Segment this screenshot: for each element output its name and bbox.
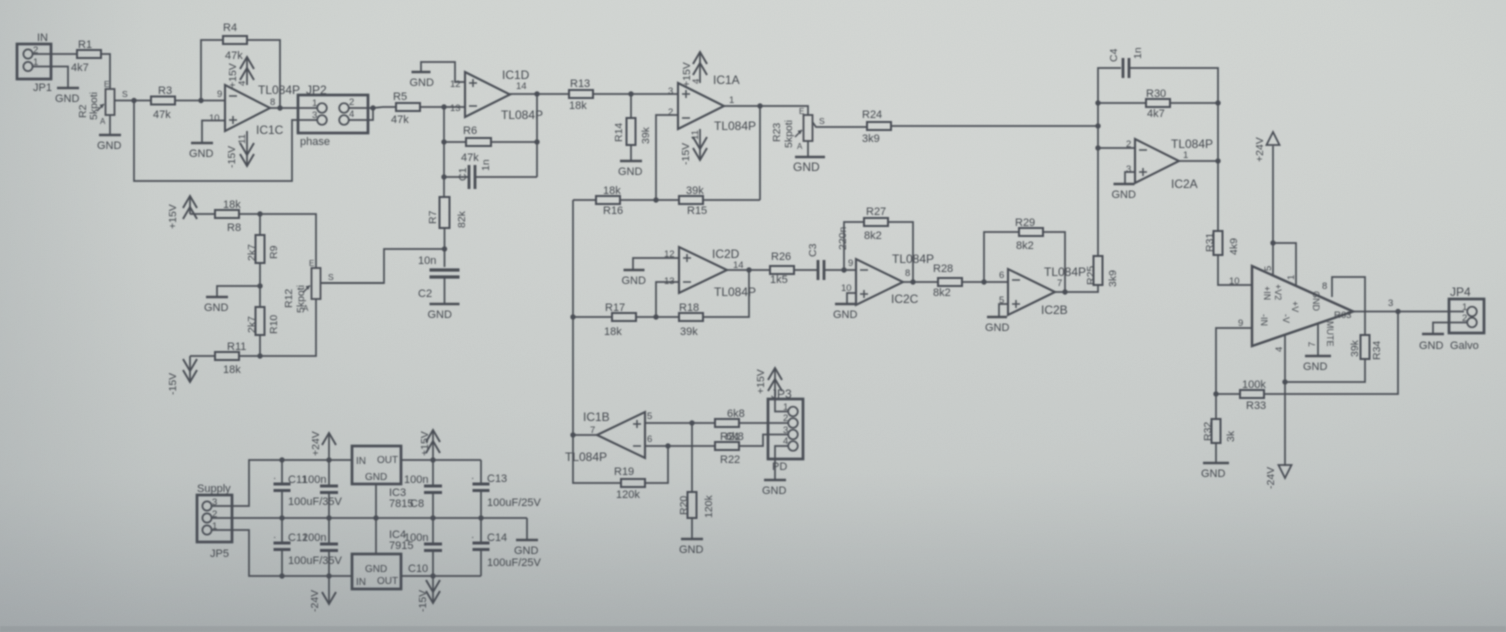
svg-text:82k: 82k [456,210,468,228]
wire R20 riser [691,423,693,492]
svg-text:+24V: +24V [310,431,322,456]
connector JP1 [17,44,51,79]
riser R6 C1 left [443,107,445,197]
svg-text:R5: R5 [393,91,407,103]
junction C7 bottom rail [326,515,331,520]
wire IC2B output to R25 [1055,285,1098,292]
svg-text:-15V: -15V [680,143,692,165]
wire JP5 pin 3 to +24V rail [212,460,352,506]
wire -15V to R11 [190,355,215,357]
svg-text:4k7: 4k7 [1147,108,1165,120]
junction IC2B output [1062,289,1067,294]
JP1 pin 2 pad [23,49,32,58]
-15V supply arrow at IC1A [693,129,707,160]
resistor R14 [627,118,636,145]
ground at R9 R10 node [204,297,229,314]
svg-text:A: A [303,304,309,313]
svg-text:-IN: -IN [1259,314,1269,326]
wire IC2C noninverting input to ground [847,293,856,303]
svg-text:1n: 1n [480,159,492,171]
resistor R18 [679,313,703,321]
rail IC4 OUT to right [401,575,481,577]
wire IC2A noninverting input to ground [1125,172,1135,183]
svg-text:R33: R33 [1246,400,1266,412]
JP1 pin 1 pad [23,62,32,71]
svg-text:1: 1 [1183,150,1188,161]
+15V supply arrow at JP3 [768,368,782,399]
svg-text:R7: R7 [427,210,439,224]
junction R6 right [534,139,539,144]
junction C13 bottom rail [478,515,483,520]
power amp output wire [1353,311,1464,313]
JP3 pin 3 pad [788,430,798,440]
svg-text:3: 3 [1126,164,1131,175]
JP3 pin 2 pad [788,418,798,428]
svg-text:9: 9 [217,89,222,100]
svg-text:9: 9 [1238,318,1243,329]
ground at IC2B input [985,317,1010,334]
svg-text:+15V: +15V [419,431,431,456]
svg-text:13: 13 [450,103,461,114]
svg-text:6k8: 6k8 [727,408,745,420]
svg-text:Galvo: Galvo [1450,340,1479,352]
capacitor C4 [1123,58,1129,78]
wire IC1B inverting to R22 [645,445,715,447]
svg-text:6: 6 [999,270,1004,281]
wire R6 right [491,141,537,143]
+24V supply arrow at rail [322,433,336,460]
op-amp IC1C [225,85,270,131]
svg-text:47k: 47k [225,50,243,62]
wire JP2 pin4 to node [348,108,373,120]
svg-text:R9: R9 [268,245,280,259]
resistor R3 [151,97,175,105]
wire JP3 pin 4 to ground [775,446,789,479]
svg-text:GND: GND [1112,189,1137,201]
wire IC1D out to IC1A [593,93,678,95]
svg-text:1: 1 [1286,275,1297,280]
svg-text:2: 2 [1126,139,1131,150]
junction +24V pins [1270,240,1275,245]
wire bus to IC2A inverting input [1098,147,1135,149]
svg-text:OUT: OUT [377,576,398,587]
wire C9 top [328,518,330,544]
resistor R34 [1361,335,1370,359]
junction R14 tap [628,91,633,96]
wire R30 right [1170,102,1218,104]
wire C12 top [281,518,283,543]
svg-text:·: · [273,473,276,484]
svg-text:3: 3 [783,425,788,436]
svg-text:3k: 3k [1225,430,1237,442]
junction at JP2 output [370,105,375,110]
connector JP5 [197,495,232,542]
capacitor C8 100n [424,486,442,493]
svg-text:-15V: -15V [167,373,179,395]
svg-text:IN: IN [356,577,366,588]
svg-text:47k: 47k [461,152,479,164]
+15V supply arrow at rail [426,430,440,460]
svg-text:IC1A: IC1A [713,73,740,87]
svg-text:39k: 39k [686,185,704,197]
svg-text:MUTE: MUTE [1325,321,1335,347]
svg-text:100uF/25V: 100uF/25V [487,497,541,509]
rail IC3 OUT to right [401,459,481,461]
riser to R27 [844,222,864,270]
junction R6 tap [441,104,446,109]
junction R32 R33 node [1213,391,1218,396]
svg-text:IC2B: IC2B [1041,303,1068,317]
svg-text:S: S [122,89,128,99]
power amp pin 4 to -24V [1284,334,1286,463]
svg-text:R3: R3 [158,85,172,97]
wire IC1C output to JP2 [270,107,318,109]
svg-text:E: E [104,80,109,89]
bus R25 to C4 [1098,68,1121,256]
svg-text:GND: GND [679,544,704,556]
wire R2 wiper to node S [115,100,134,102]
svg-text:IC2C: IC2C [891,292,919,306]
wire R11 to R12 bottom [239,299,316,356]
svg-text:TL084P: TL084P [565,450,607,464]
wire R33 to node [1216,393,1240,395]
ground of supply rail [514,540,539,557]
svg-text:TL084P: TL084P [714,285,756,299]
resistor R7 [440,197,450,228]
svg-text:IN: IN [356,456,366,467]
junction C8 bottom rail [430,515,435,520]
svg-text:R20: R20 [678,496,690,515]
capacitor C12 [274,543,291,550]
op-amp IC2B [1008,269,1055,315]
JP3 pin 4 pad [788,441,798,451]
junction C7 top [326,457,331,462]
svg-text:3k9: 3k9 [1107,270,1119,287]
wire R1 to R2 top [101,54,110,89]
wire up to R4 [201,40,223,101]
svg-text:GND: GND [1303,361,1328,373]
wire JP3 pin 1 to +15V [775,399,789,412]
svg-text:11: 11 [237,134,248,144]
junction IC1C output [277,105,282,110]
junction node S [131,98,136,103]
junction C8 top [430,457,435,462]
wire C10 bottom [432,551,434,576]
wire C12 bottom [281,550,283,576]
svg-text:4k9: 4k9 [1228,238,1240,255]
svg-text:100n: 100n [302,474,326,486]
junction power amp output [1395,309,1400,314]
wire C1 right [476,176,537,178]
svg-text:2k7: 2k7 [246,316,258,333]
svg-text:A: A [100,117,106,126]
svg-text:39k: 39k [640,126,652,144]
connector JP3 [768,399,803,459]
svg-text:2: 2 [783,413,788,424]
resistor R8 [215,210,239,218]
wire JP4 pin2 to ground [1433,323,1467,334]
resistor R9 [256,235,265,263]
wire ground rail to GND [526,518,528,539]
svg-text:8k2: 8k2 [1016,240,1034,252]
wire R12 wiper to C2 node [321,282,384,284]
svg-text:R28: R28 [933,263,953,275]
wire JP1 pin2 to R1 [33,53,77,55]
JP4 pin 2 pad [1467,318,1477,328]
svg-text:47k: 47k [391,114,409,126]
wire R9 top [259,214,261,235]
junction C1 left [441,174,446,179]
svg-text:10: 10 [209,113,220,124]
junction bus R30 [1095,100,1100,105]
svg-text:GND: GND [189,148,214,160]
wire bus to R30 [1098,102,1146,104]
feedback wire output to R33 [1263,312,1398,395]
junction IC2C output [910,279,915,284]
svg-text:IC2D: IC2D [712,247,740,261]
ground at IC1C input [189,143,214,160]
JP5 pin 1 pad [202,525,211,534]
junction R34 pin4 rail [1282,379,1287,384]
svg-text:GND: GND [833,309,858,321]
wire R22 to JP3 pin 3 [739,435,789,447]
svg-text:R12: R12 [283,289,295,308]
riser C4 R30 to output and R31 [1217,103,1219,231]
resistor R4 [223,36,247,44]
svg-text:C8: C8 [410,498,424,510]
svg-text:GND: GND [1311,291,1321,312]
svg-text:IC1D: IC1D [502,68,530,82]
resistor R22 [715,442,739,450]
svg-text:4k7: 4k7 [71,62,89,74]
wire R7 to C2 [444,228,446,267]
svg-text:phase: phase [300,136,330,148]
+24V supply arrow [1267,132,1280,243]
wire R8 to R12 top [239,214,316,268]
capacitor C14 [473,543,490,550]
wire IC4 GND to rail [375,518,377,554]
regulator IC4 7915 [352,554,401,589]
svg-text:100k: 100k [1242,379,1266,391]
wire C4 to right riser [1130,68,1218,103]
svg-text:7: 7 [1307,342,1318,347]
svg-text:1: 1 [1462,302,1467,313]
svg-text:R34: R34 [1371,341,1383,360]
svg-text:6: 6 [647,434,652,445]
wire JP2 to R5 [373,107,396,108]
wire R14 to ground [630,145,632,160]
svg-text:JP4: JP4 [1450,285,1471,299]
capacitor C2 [430,270,460,277]
op-amp IC1A [678,83,724,129]
wire C7 top [328,460,330,486]
resistor R17 [612,313,636,321]
svg-text:47k: 47k [153,109,171,121]
svg-text:PD: PD [772,461,787,473]
svg-text:2: 2 [349,97,354,108]
wire C8 bottom [432,493,434,518]
svg-text:5: 5 [647,411,652,422]
wire IC1B output to bus [573,434,597,436]
resistor R1 [77,50,101,58]
svg-text:-15V: -15V [226,146,238,168]
svg-text:1k5: 1k5 [770,274,788,286]
wire R23 to ground [807,141,809,156]
wire R20 to ground [691,518,693,538]
wire node S to R3 [134,100,151,102]
svg-text:5kpoti: 5kpoti [88,92,100,120]
-15V supply arrow at R11 [183,356,197,382]
wire arrow to R8 [190,213,215,215]
connector JP4 [1449,299,1484,333]
svg-text:C4: C4 [1108,48,1120,62]
svg-text:·: · [471,532,474,543]
resistor R11 [215,352,239,360]
svg-text:+V2: +V2 [1273,284,1283,300]
wire C8 top [432,460,434,486]
svg-text:3: 3 [668,86,673,97]
svg-text:18k: 18k [223,364,241,376]
svg-text:E: E [799,107,804,116]
junction R7 C2 node [442,246,447,251]
svg-text:TL084P: TL084P [714,119,756,133]
svg-text:GND: GND [762,485,787,497]
svg-text:JP5: JP5 [210,548,229,560]
wire R29 right riser [1043,232,1065,292]
wire R16 to R15 [620,199,679,201]
wire IC2D noninverting input to ground [633,258,679,269]
resistor R13 [569,90,593,98]
svg-text:S: S [819,116,825,126]
capacitor C13 [473,484,490,491]
resistor R32 [1212,419,1221,443]
-24V supply arrow at rail [322,576,336,604]
wire R10 to R11 row [259,335,261,356]
connector JP2 [298,95,368,133]
junction R19 R22 node [665,443,670,448]
svg-text:R8: R8 [227,222,241,234]
wire IC2D output to R26 [727,269,770,271]
junction R20 tap [689,420,694,425]
svg-text:GND: GND [55,93,80,105]
wire JP1 pin1 to ground [33,67,68,88]
wire node to R12 wiper [321,249,445,283]
svg-text:GND: GND [622,275,647,287]
wire R9 to R10 [259,263,261,307]
wire R18 right riser [703,270,749,317]
svg-text:R10: R10 [268,315,280,334]
JP2 pin 3 pad [317,115,327,125]
svg-text:IC2A: IC2A [1171,177,1198,191]
junction IC2D output [746,267,751,272]
svg-text:3: 3 [312,110,317,121]
svg-text:8: 8 [1322,281,1327,292]
wire IC1A output [724,106,808,115]
svg-text:3: 3 [1388,298,1393,309]
wire +24V to pin 1 [1273,243,1296,286]
wire node to R32 [1215,394,1217,419]
wire C14 bottom [480,550,482,576]
wire power amp -IN pin 9 [1216,328,1252,394]
potentiometer R2 [97,89,115,115]
svg-text:5: 5 [1263,266,1274,271]
wire C9 bottom [328,551,330,576]
svg-text:100uF/35V: 100uF/35V [288,555,342,567]
junction R28 R29 [981,279,986,284]
wire R5 to IC1D inverting input [420,106,465,108]
svg-text:R1: R1 [78,39,92,51]
svg-text:C1: C1 [457,167,469,181]
svg-text:39k: 39k [680,326,698,338]
wire JP5 pin 1 to -24V rail [212,530,352,576]
wire C13 top [480,460,482,484]
wire R27 right riser [888,222,913,282]
op-amp IC2A [1135,139,1179,183]
junction IC3 GND rail [373,515,378,520]
junction R16 R15 [653,197,658,202]
svg-text:R17: R17 [605,302,625,314]
svg-text:GND: GND [1201,468,1226,480]
svg-text:7: 7 [1057,278,1062,289]
resistor R29 [1019,228,1043,236]
svg-text:1: 1 [312,98,317,109]
wire R28 to IC2B inverting input [962,281,1008,283]
svg-text:C3: C3 [807,243,819,257]
svg-text:7915: 7915 [389,540,413,552]
svg-text:GND: GND [97,140,122,152]
wire IC1B noninverting to R21 [645,422,715,424]
-15V supply arrow at rail [426,576,440,603]
svg-text:R25: R25 [1085,266,1097,285]
svg-text:C14: C14 [487,532,507,544]
ground below JP3 [762,480,787,497]
ground below R32 [1201,463,1229,480]
resistor R16 [596,196,620,204]
op-amp IC2D [679,247,727,293]
svg-text:GND: GND [410,77,435,89]
svg-text:TL084P: TL084P [1044,265,1086,279]
svg-text:8k2: 8k2 [933,287,951,299]
svg-text:TL084P: TL084P [1171,137,1213,151]
wire IC1D output to R13 [510,93,569,95]
svg-text:+24V: +24V [1254,137,1266,162]
svg-text:C13: C13 [487,473,507,485]
svg-text:GND: GND [793,160,820,174]
svg-text:R13: R13 [570,78,590,90]
junction R6 left [441,139,446,144]
svg-text:14: 14 [516,81,527,92]
wire IC2B noninverting input to ground [999,304,1008,316]
svg-text:GND: GND [618,166,643,178]
svg-text:-24V: -24V [1265,467,1277,489]
wire C3 to IC2C inverting input [825,269,856,271]
ground below R14 [618,161,643,178]
svg-text:GND: GND [985,322,1010,334]
junction at C1 feedback top [534,91,539,96]
long wire R24 to IC2A node [891,125,1098,127]
svg-text:220n: 220n [837,226,849,250]
JP5 pin 2 pad [202,513,211,522]
wire R26 to C3 [794,269,818,271]
wire to C1 [444,176,469,178]
svg-text:E: E [309,259,314,268]
ground below R23 [793,157,825,174]
svg-text:100n: 100n [404,474,428,486]
svg-text:A: A [797,142,803,151]
junction R9 R10 mid [257,283,262,288]
svg-text:8: 8 [270,97,275,108]
ground at IC1D input [410,72,435,89]
